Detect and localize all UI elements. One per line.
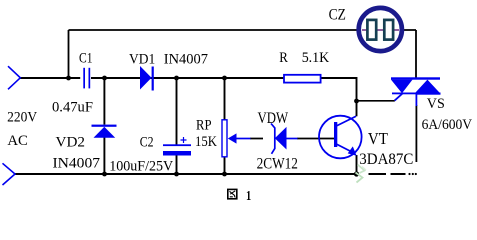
socket CZ xyxy=(359,8,402,51)
capacitor C2 electrolytic plates xyxy=(163,144,191,155)
svg-text:0.47uF: 0.47uF xyxy=(52,99,93,115)
label 0.47uF xyxy=(52,99,93,115)
C2 plus polarity mark xyxy=(181,137,187,143)
label RP xyxy=(196,117,212,133)
diode VD2 IN4007 (vertical, cathode up) xyxy=(92,125,117,138)
terminal: AC input bottom connector xyxy=(3,163,16,185)
svg-text:3DA87C: 3DA87C xyxy=(359,151,413,168)
wire: triac lower lead vertical x=416 xyxy=(415,105,417,162)
label 5.1K xyxy=(302,50,330,66)
wire: collector vertical from junction down to transistor xyxy=(356,101,358,116)
label IN4007 top xyxy=(164,51,208,67)
label 6A/600V xyxy=(422,117,473,133)
svg-text:IN4007: IN4007 xyxy=(53,155,101,171)
transistor VT 3DA87C xyxy=(319,116,362,159)
svg-text:2CW12: 2CW12 xyxy=(257,155,298,172)
label R xyxy=(279,50,288,66)
label AC xyxy=(7,133,28,149)
junction dot at VD2 top branch xyxy=(102,76,107,81)
svg-text:VS: VS xyxy=(427,96,445,112)
wire: bottom wire y=174 xyxy=(15,173,357,175)
svg-text:R: R xyxy=(279,50,288,66)
label VD1 xyxy=(129,51,155,67)
label IN4007 bottom xyxy=(53,155,101,171)
label CZ xyxy=(329,6,346,23)
wire: VD2 branch vertical x=104.5 xyxy=(103,78,105,174)
label 2CW12 xyxy=(257,155,298,172)
svg-text:C1: C1 xyxy=(79,51,93,67)
watermark light green xyxy=(356,165,367,183)
svg-text:VT: VT xyxy=(368,129,389,148)
svg-text:1: 1 xyxy=(246,189,251,203)
svg-text:C2: C2 xyxy=(140,134,154,150)
svg-text:IN4007: IN4007 xyxy=(164,51,208,67)
junction dot VD2 bottom xyxy=(102,172,107,177)
wire: vertical from main wire dot up to top rail at x=68.5 xyxy=(68,30,70,78)
label VDW xyxy=(258,110,289,127)
svg-text:5.1K: 5.1K xyxy=(302,50,330,66)
potentiometer RP wiper arrow xyxy=(228,133,251,143)
svg-text:15K: 15K xyxy=(195,134,217,150)
label VS xyxy=(427,96,445,112)
junction dot at C1 left / top rail branch xyxy=(66,76,71,81)
label C2 xyxy=(140,134,154,150)
svg-text:AC: AC xyxy=(7,133,28,149)
label 15K xyxy=(195,134,217,150)
junction dot at RP top branch xyxy=(222,76,227,81)
diode VD1 IN4007 xyxy=(140,66,154,91)
wire: CZ to triac vertical at x=416 xyxy=(415,30,417,78)
junction dot at gate/collector node xyxy=(354,99,359,104)
svg-text:VD2: VD2 xyxy=(56,134,86,150)
svg-text:VD1: VD1 xyxy=(129,51,155,67)
svg-text:CZ: CZ xyxy=(329,6,346,23)
triac VS xyxy=(391,77,441,106)
terminal: AC input top connector xyxy=(8,66,20,89)
wire: gate horizontal from junction to triac gate slant xyxy=(357,100,395,102)
svg-text:VDW: VDW xyxy=(258,110,289,127)
junction dot C2 bottom xyxy=(174,172,179,177)
capacitor C1 xyxy=(83,68,90,89)
caption figure number 1 xyxy=(246,189,251,204)
wire: RP wiper to VDW to transistor base xyxy=(250,138,334,140)
wire: main top wire y=78 left segment xyxy=(20,77,80,79)
wire: emitter vertical from transistor down to bottom wire xyxy=(356,155,358,174)
svg-text:6A/600V: 6A/600V xyxy=(422,117,473,133)
potentiometer RP body xyxy=(222,120,227,157)
wire: C2 branch vertical x=176.5 xyxy=(176,78,178,174)
svg-text:RP: RP xyxy=(196,117,212,133)
junction dot emitter bottom xyxy=(354,171,359,176)
label VT xyxy=(368,129,389,148)
label C1 xyxy=(79,51,93,67)
wire: main top wire y=78 right segment after R, corner down to gate junction xyxy=(321,78,357,101)
caption figure glyph (CJK tu) xyxy=(227,189,238,200)
label 220V xyxy=(7,109,37,125)
wire: bottom dashed continuation xyxy=(369,173,417,175)
svg-text:220V: 220V xyxy=(7,109,37,125)
label 3DA87C xyxy=(359,151,413,168)
junction dot at C2 top branch xyxy=(174,76,179,81)
zener diode VDW 2CW12 xyxy=(271,124,298,154)
junction dot RP bottom xyxy=(222,172,227,177)
wire: RP branch vertical x=224.5 xyxy=(224,78,226,174)
label VD2 xyxy=(56,134,86,150)
label 100uF/25V xyxy=(109,159,173,175)
wire: top rail horizontal y=30 from C1 branch to CZ corner xyxy=(69,29,417,31)
svg-text:100uF/25V: 100uF/25V xyxy=(109,159,173,175)
resistor R 5.1K xyxy=(284,75,321,83)
wire: main top wire y=78 middle segment xyxy=(91,77,284,79)
